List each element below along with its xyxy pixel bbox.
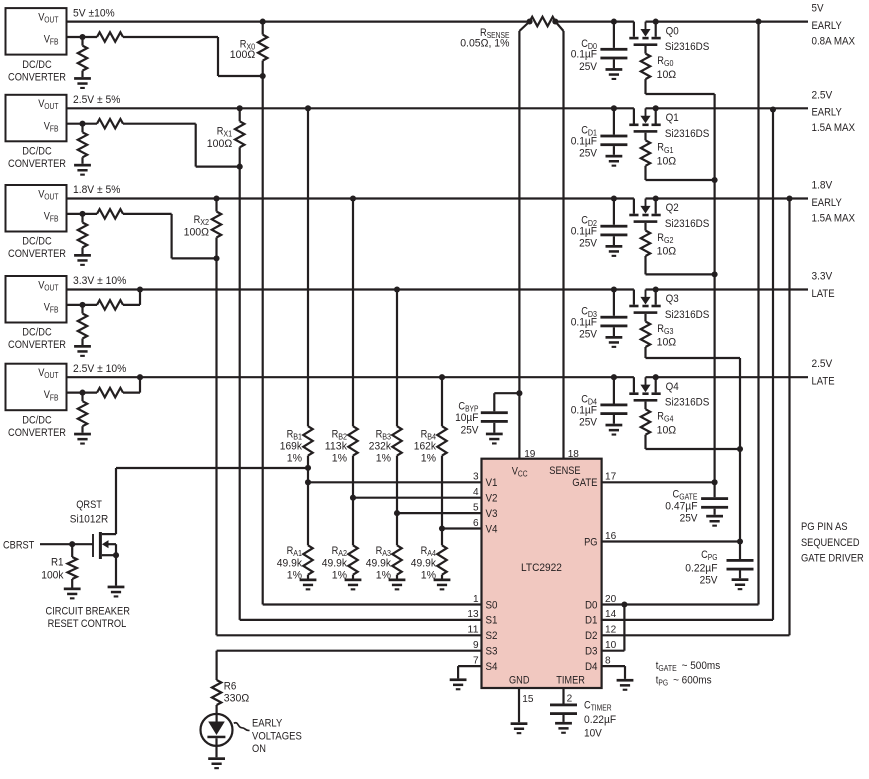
resistor R6 330 ohm	[212, 680, 221, 713]
svg-text:CIRCUIT BREAKER: CIRCUIT BREAKER	[46, 606, 130, 618]
capacitor CGATE 0.47uF 25V	[701, 479, 728, 515]
RG4 value label	[657, 411, 677, 437]
svg-text:1%: 1%	[376, 453, 392, 465]
series feedback resistor (converter 2)	[67, 119, 124, 128]
svg-text:6: 6	[473, 517, 479, 529]
wire RX0 bottom to S0 pin	[263, 76, 482, 605]
resistor RSENSE 0.05 ohm in 5V rail	[527, 17, 559, 26]
wire RX2 bottom to S2 pin	[217, 258, 482, 635]
resistor R1 100k	[68, 544, 77, 587]
pin numbers left side 3 4 5 6 1 13 11 9 7	[467, 471, 478, 667]
ground (RA4)	[434, 579, 451, 591]
svg-text:V4: V4	[486, 523, 498, 535]
svg-text:DC/DC: DC/DC	[22, 327, 51, 339]
svg-text:10Ω: 10Ω	[657, 337, 677, 349]
svg-text:169k: 169k	[280, 441, 303, 453]
resistor RB1 169k 1%	[303, 105, 312, 485]
svg-text:CONVERTER: CONVERTER	[8, 427, 66, 439]
svg-text:G1: G1	[664, 146, 674, 155]
pin numbers top 19 18	[524, 448, 579, 460]
wire QRST drain to V1 node	[116, 468, 308, 534]
resistor RG4 10 ohm gate resistor	[641, 402, 650, 449]
svg-text:OUT: OUT	[44, 16, 58, 25]
RA2 value label	[322, 545, 348, 582]
svg-text:EARLY: EARLY	[252, 718, 283, 730]
svg-text:FB: FB	[50, 124, 59, 133]
svg-text:GND: GND	[509, 674, 530, 686]
svg-text:~ 500ms: ~ 500ms	[677, 660, 721, 672]
svg-text:2.5V ± 10%: 2.5V ± 10%	[73, 363, 127, 375]
resistor RX2 100 ohm	[212, 195, 221, 261]
svg-text:S3: S3	[486, 646, 498, 658]
ground (CD3)	[606, 336, 623, 348]
svg-text:D3: D3	[585, 646, 598, 658]
svg-text:OUT: OUT	[44, 371, 58, 380]
svg-text:Q1: Q1	[666, 112, 679, 124]
svg-text:PG: PG	[658, 678, 668, 687]
LTC2922 left pin labels V1-V4 S0-S4	[486, 477, 498, 673]
ground (RA2)	[345, 579, 362, 591]
svg-text:EARLY: EARLY	[812, 197, 843, 209]
svg-text:2.5V: 2.5V	[812, 89, 833, 101]
svg-text:17: 17	[605, 471, 616, 483]
svg-text:20: 20	[605, 593, 616, 605]
resistor RG1 10 ohm gate resistor	[641, 133, 650, 180]
DC/DC converter block 3	[6, 185, 67, 260]
rail voltage label 1.8V ± 5%	[73, 184, 121, 196]
wire 5V rail to D0 pin	[602, 18, 762, 607]
svg-text:CONVERTER: CONVERTER	[8, 339, 66, 351]
svg-text:D2: D2	[585, 630, 598, 642]
rail voltage label 2.5V ± 10%	[73, 363, 127, 375]
svg-text:GATE: GATE	[658, 664, 676, 673]
wire rail 2.5V ± 5% from converter 2 to Q1 source	[67, 107, 634, 109]
wire Q1 gate to bus	[646, 177, 718, 183]
svg-text:OUT: OUT	[44, 102, 58, 111]
svg-text:1.5A MAX: 1.5A MAX	[812, 122, 856, 134]
svg-text:10Ω: 10Ω	[657, 424, 677, 436]
CTIMER value label	[584, 700, 616, 740]
svg-text:49.9k: 49.9k	[411, 558, 437, 570]
wire D4 pin to ground	[602, 666, 625, 679]
wire RSENSE right to SENSE pin 18	[555, 22, 563, 459]
svg-text:RESET CONTROL: RESET CONTROL	[48, 618, 127, 630]
wire CBRST to QRST gate	[40, 541, 93, 547]
svg-text:13: 13	[467, 608, 478, 620]
wire VFB5 to 2.5V rail	[123, 374, 143, 392]
svg-text:LATE: LATE	[812, 288, 835, 300]
svg-text:V1: V1	[486, 477, 498, 489]
ground (converter 1 feedback divider)	[74, 77, 91, 89]
resistor RA2 49.9k 1%	[348, 498, 357, 579]
svg-text:12: 12	[605, 624, 616, 636]
svg-text:15: 15	[522, 693, 533, 705]
svg-text:ON: ON	[252, 743, 266, 755]
svg-text:25V: 25V	[579, 238, 598, 250]
wire 5V rail from converter 1 to RSENSE	[67, 21, 530, 23]
svg-text:G0: G0	[664, 59, 674, 68]
svg-text:162k: 162k	[414, 441, 437, 453]
capacitor CD0 0.1uF 25V	[600, 19, 627, 69]
ground (RA1)	[300, 579, 317, 591]
svg-text:5V ±10%: 5V ±10%	[73, 7, 115, 19]
CD4 value label	[571, 393, 598, 428]
capacitor CD2 0.1uF 25V	[600, 195, 627, 245]
svg-text:25V: 25V	[579, 61, 598, 73]
RG3 value label	[657, 323, 677, 349]
LTC2922 right pin labels GATE PG D0-D4	[572, 477, 597, 673]
ground (D4)	[617, 679, 634, 691]
svg-text:0.1µF: 0.1µF	[571, 135, 598, 147]
feedback divider resistor to ground (converter 1)	[78, 37, 87, 77]
svg-text:2.5V ± 5%: 2.5V ± 5%	[73, 94, 121, 106]
CBRST input label	[3, 540, 35, 552]
svg-text:R1: R1	[51, 556, 64, 568]
capacitor CD3 0.1uF 25V	[600, 286, 627, 336]
node VFB5 junction	[79, 390, 85, 396]
wire V2 pin	[353, 497, 482, 499]
resistor RG2 10 ohm gate resistor	[641, 223, 650, 275]
transistor Q3 Si2316DS P-channel MOSFET	[629, 286, 660, 313]
LTC2922 bottom pin labels GND TIMER	[509, 674, 585, 686]
resistor RB4 162k 1%	[437, 374, 446, 531]
svg-text:CONVERTER: CONVERTER	[8, 158, 66, 170]
resistor RA1 49.9k 1%	[303, 482, 312, 578]
rail voltage label 2.5V ± 5%	[73, 94, 121, 106]
svg-text:OUT: OUT	[44, 192, 58, 201]
svg-text:1.8V ± 5%: 1.8V ± 5%	[73, 184, 121, 196]
svg-text:1.8V: 1.8V	[812, 180, 833, 192]
ground (converter 2 feedback divider)	[74, 164, 91, 176]
svg-text:100Ω: 100Ω	[184, 227, 209, 239]
svg-text:25V: 25V	[680, 513, 699, 525]
wire VFB4 to 3.3V rail	[123, 286, 143, 304]
series feedback resistor (converter 3)	[67, 209, 124, 218]
svg-text:2: 2	[567, 693, 573, 705]
feedback divider resistor to ground (converter 4)	[78, 305, 87, 345]
svg-text:11: 11	[467, 624, 478, 636]
svg-text:SENSE: SENSE	[549, 465, 580, 477]
svg-text:D4: D4	[585, 661, 598, 673]
svg-text:Q3: Q3	[666, 293, 679, 305]
svg-text:S4: S4	[486, 661, 498, 673]
ground (CD1)	[606, 155, 623, 167]
feedback divider resistor to ground (converter 2)	[78, 124, 87, 164]
svg-text:DC/DC: DC/DC	[22, 236, 51, 248]
svg-text:Q2: Q2	[666, 202, 679, 214]
resistor RB2 113k 1%	[348, 195, 357, 500]
pin numbers bottom 15 2	[522, 693, 572, 705]
svg-text:Si1012R: Si1012R	[70, 514, 108, 526]
Q3 designator label	[666, 293, 679, 305]
RG0 value label	[657, 55, 677, 81]
wire rail 2.5V ± 10% from converter 5 to Q4 source	[67, 376, 634, 378]
svg-text:S0: S0	[486, 599, 498, 611]
wire Q4 gate to bus	[646, 446, 744, 452]
RG2 value label	[657, 232, 677, 258]
DC/DC converter block 4	[6, 276, 67, 351]
wire Q2 gate to bus	[646, 271, 718, 277]
svg-text:TIMER: TIMER	[591, 704, 612, 713]
svg-text:8: 8	[605, 654, 611, 666]
QRST designator label	[70, 499, 108, 526]
wire QRST source to ground	[115, 555, 117, 585]
svg-text:LATE: LATE	[812, 376, 835, 388]
wire S4 pin to ground	[458, 666, 481, 678]
svg-text:GATE DRIVER: GATE DRIVER	[801, 552, 864, 564]
resistor RX1 100 ohm	[235, 105, 244, 169]
svg-text:16: 16	[605, 530, 616, 542]
wire 5V rail RSENSE to Q0 source	[555, 21, 634, 23]
ground (QRST source)	[108, 586, 125, 598]
svg-text:S2: S2	[486, 630, 498, 642]
svg-text:1.5A MAX: 1.5A MAX	[812, 212, 856, 224]
svg-text:49.9k: 49.9k	[277, 558, 303, 570]
ground (S4)	[450, 678, 467, 690]
wire V4 pin	[442, 527, 482, 529]
svg-text:DC/DC: DC/DC	[22, 414, 51, 426]
svg-text:0.22µF: 0.22µF	[685, 562, 717, 574]
svg-text:25V: 25V	[579, 148, 598, 160]
svg-text:Si2316DS: Si2316DS	[665, 309, 710, 321]
resistor RB3 232k 1%	[392, 286, 401, 516]
output label 1.8V EARLY 1.5A MAX	[812, 180, 856, 225]
transistor Q2 Si2316DS P-channel MOSFET	[629, 195, 660, 222]
CBYP value label	[455, 401, 479, 437]
svg-text:PG: PG	[708, 553, 718, 562]
svg-text:Si2316DS: Si2316DS	[665, 397, 710, 409]
wire rail 1.8V ± 5% from converter 3 to Q2 source	[67, 197, 634, 199]
svg-text:Si2316DS: Si2316DS	[665, 218, 710, 230]
svg-text:3: 3	[473, 471, 479, 483]
svg-text:CONVERTER: CONVERTER	[8, 248, 66, 260]
svg-text:0.47µF: 0.47µF	[665, 501, 697, 513]
wire V3 pin	[397, 512, 482, 514]
svg-text:0.1µF: 0.1µF	[571, 317, 598, 329]
svg-text:S1: S1	[486, 615, 498, 627]
svg-text:0.1µF: 0.1µF	[571, 404, 598, 416]
wire PG pin 16 to PG bus	[602, 540, 740, 542]
wire D3 pin to D0 node	[602, 605, 625, 651]
RB3 value label	[369, 429, 392, 465]
svg-text:SEQUENCED: SEQUENCED	[801, 537, 860, 549]
svg-text:R6: R6	[224, 681, 237, 693]
transistor QRST Si1012R N-channel MOSFET	[93, 532, 119, 559]
R6 value label	[224, 681, 249, 705]
output label 2.5V EARLY 1.5A MAX	[812, 89, 856, 134]
svg-text:CC: CC	[518, 470, 528, 479]
svg-text:CBRST: CBRST	[3, 540, 35, 552]
RSENSE value label	[460, 27, 509, 50]
svg-text:25V: 25V	[579, 329, 598, 341]
svg-text:9: 9	[473, 639, 479, 651]
resistor RG0 10 ohm gate resistor	[641, 46, 650, 94]
ground (GND pin)	[511, 722, 528, 734]
RX2 value label	[184, 214, 210, 239]
wire PG bus Q3-Q4 down to PG pin	[739, 358, 741, 542]
wire 1.8V EARLY rail to D2 pin	[602, 195, 793, 635]
node VFB3 junction	[79, 211, 85, 217]
svg-text:D0: D0	[585, 599, 598, 611]
svg-text:Q4: Q4	[666, 381, 679, 393]
svg-text:18: 18	[568, 448, 579, 460]
svg-text:V3: V3	[486, 508, 498, 520]
rail voltage label 5V ±10%	[73, 7, 115, 19]
node VFB2 junction	[79, 121, 85, 127]
capacitor CTIMER 0.22uF 10V	[550, 688, 577, 722]
RB1 value label	[280, 429, 303, 465]
RA3 value label	[366, 545, 392, 582]
Q3 part number label	[665, 309, 710, 321]
svg-text:TIMER: TIMER	[556, 674, 585, 686]
DC/DC converter block 2	[6, 95, 67, 170]
R1 value label	[41, 556, 64, 581]
Q0 designator label	[666, 25, 679, 37]
DC/DC converter block 1	[6, 8, 67, 83]
svg-text:3.3V ± 10%: 3.3V ± 10%	[73, 275, 127, 287]
ground (converter 5 feedback divider)	[74, 433, 91, 445]
capacitor CPG 0.22uF 25V	[727, 538, 754, 578]
transistor Q4 Si2316DS P-channel MOSFET	[629, 374, 660, 401]
resistor RX0 100 ohm	[258, 19, 267, 79]
svg-text:1%: 1%	[287, 453, 303, 465]
svg-text:25V: 25V	[700, 574, 719, 586]
wire GND pin 15 to ground	[518, 688, 520, 722]
svg-text:10Ω: 10Ω	[657, 156, 677, 168]
ground (converter 4 feedback divider)	[74, 345, 91, 357]
Q4 part number label	[665, 397, 710, 409]
svg-text:G4: G4	[664, 415, 674, 424]
capacitor CD4 0.1uF 25V	[600, 374, 627, 424]
svg-text:PG PIN AS: PG PIN AS	[801, 521, 848, 533]
svg-text:G3: G3	[664, 327, 674, 336]
svg-text:232k: 232k	[369, 441, 392, 453]
svg-text:CONVERTER: CONVERTER	[8, 71, 66, 83]
svg-text:14: 14	[605, 608, 616, 620]
svg-text:G2: G2	[664, 236, 674, 245]
CIRCUIT BREAKER RESET CONTROL label	[46, 606, 130, 631]
svg-text:25V: 25V	[579, 416, 598, 428]
capacitor CD1 0.1uF 25V	[600, 105, 627, 155]
svg-text:1%: 1%	[376, 570, 392, 582]
svg-text:7: 7	[473, 654, 479, 666]
wire rail 3.3V ± 10% from converter 4 to Q3 source	[67, 288, 634, 290]
svg-text:1: 1	[473, 593, 479, 605]
feedback divider resistor to ground (converter 5)	[78, 393, 87, 433]
ground (CD4)	[606, 424, 623, 436]
svg-text:330Ω: 330Ω	[224, 693, 249, 705]
svg-text:19: 19	[524, 448, 535, 460]
op-amp U1 LTC2922 supply sequencer IC body	[482, 459, 602, 688]
transistor Q1 Si2316DS P-channel MOSFET	[629, 105, 660, 132]
svg-text:Si2316DS: Si2316DS	[665, 128, 710, 140]
wire S3 pin to R6	[217, 651, 482, 680]
RB4 value label	[414, 429, 437, 465]
ground (CTIMER)	[555, 722, 572, 734]
svg-text:LTC2922: LTC2922	[521, 562, 562, 574]
ground (RA3)	[389, 579, 406, 591]
CD0 value label	[571, 38, 598, 73]
wire Q3 gate to bus	[646, 357, 741, 359]
svg-text:10: 10	[605, 639, 616, 651]
pin numbers right side 17 16 20 14 12 10 8	[605, 471, 616, 667]
output label 2.5V LATE	[812, 358, 835, 387]
svg-text:FB: FB	[50, 393, 59, 402]
Q2 part number label	[665, 218, 710, 230]
svg-text:10µF: 10µF	[455, 412, 479, 424]
LTC2922 part label	[521, 562, 562, 574]
svg-text:2.5V: 2.5V	[812, 358, 833, 370]
svg-text:0.1µF: 0.1µF	[571, 226, 598, 238]
svg-text:49.9k: 49.9k	[366, 558, 392, 570]
CD1 value label	[571, 125, 598, 160]
CGATE value label	[665, 489, 698, 525]
RG1 value label	[657, 142, 677, 168]
ground (CGATE)	[706, 515, 723, 527]
svg-text:10Ω: 10Ω	[657, 246, 677, 258]
svg-text:0.05Ω, 1%: 0.05Ω, 1%	[460, 37, 509, 49]
wire VFB1 to RX0 bottom	[123, 37, 263, 76]
svg-text:5V: 5V	[812, 3, 825, 15]
wire Q0 gate to bus	[646, 93, 715, 95]
RX0 value label	[230, 39, 256, 62]
svg-text:DC/DC: DC/DC	[22, 59, 51, 71]
wire Q4 drain to output label	[646, 376, 809, 378]
RB2 value label	[325, 429, 348, 465]
output label 5V EARLY 0.8A MAX	[812, 3, 856, 48]
svg-text:113k: 113k	[325, 441, 348, 453]
svg-text:100k: 100k	[41, 569, 64, 581]
svg-text:0.1µF: 0.1µF	[571, 49, 598, 61]
svg-text:0.22µF: 0.22µF	[584, 714, 616, 726]
svg-text:0.8A MAX: 0.8A MAX	[812, 35, 856, 47]
LED D5 early voltages indicator	[201, 713, 233, 757]
ground (CD2)	[606, 245, 623, 257]
series feedback resistor (converter 4)	[67, 300, 124, 309]
resistor RG3 10 ohm gate resistor	[641, 314, 650, 358]
Q4 designator label	[666, 381, 679, 393]
svg-text:100Ω: 100Ω	[207, 138, 232, 150]
wire RX1 bottom to S1 pin	[240, 167, 482, 620]
wire RSENSE left to VCC pin 19	[519, 22, 529, 459]
svg-text:FB: FB	[50, 306, 59, 315]
Q0 part number label	[665, 41, 710, 53]
svg-text:5: 5	[473, 501, 479, 513]
wire Q1 drain to output label	[646, 107, 809, 109]
svg-text:25V: 25V	[461, 424, 480, 436]
svg-text:QRST: QRST	[76, 499, 102, 511]
ground (LED)	[208, 757, 225, 769]
LTC2922 top pin labels VCC SENSE	[512, 465, 581, 478]
ground (converter 3 feedback divider)	[74, 254, 91, 266]
CD3 value label	[571, 306, 598, 341]
wire GATE bus Q0-Q2 down to GATE pin	[713, 94, 715, 482]
node VFB4 junction	[79, 302, 85, 308]
svg-text:4: 4	[473, 486, 479, 498]
wire VFB2 to RX1 bottom	[123, 124, 240, 167]
Q2 designator label	[666, 202, 679, 214]
series feedback resistor (converter 5)	[67, 388, 124, 397]
svg-text:Q0: Q0	[666, 25, 679, 37]
node VFB1 junction	[79, 34, 85, 40]
svg-text:PG: PG	[584, 536, 597, 548]
svg-text:V2: V2	[486, 493, 498, 505]
svg-text:10Ω: 10Ω	[657, 69, 677, 81]
svg-text:10V: 10V	[584, 727, 603, 739]
feedback divider resistor to ground (converter 3)	[78, 214, 87, 254]
svg-text:GATE: GATE	[572, 477, 597, 489]
resistor RA4 49.9k 1%	[437, 529, 446, 579]
